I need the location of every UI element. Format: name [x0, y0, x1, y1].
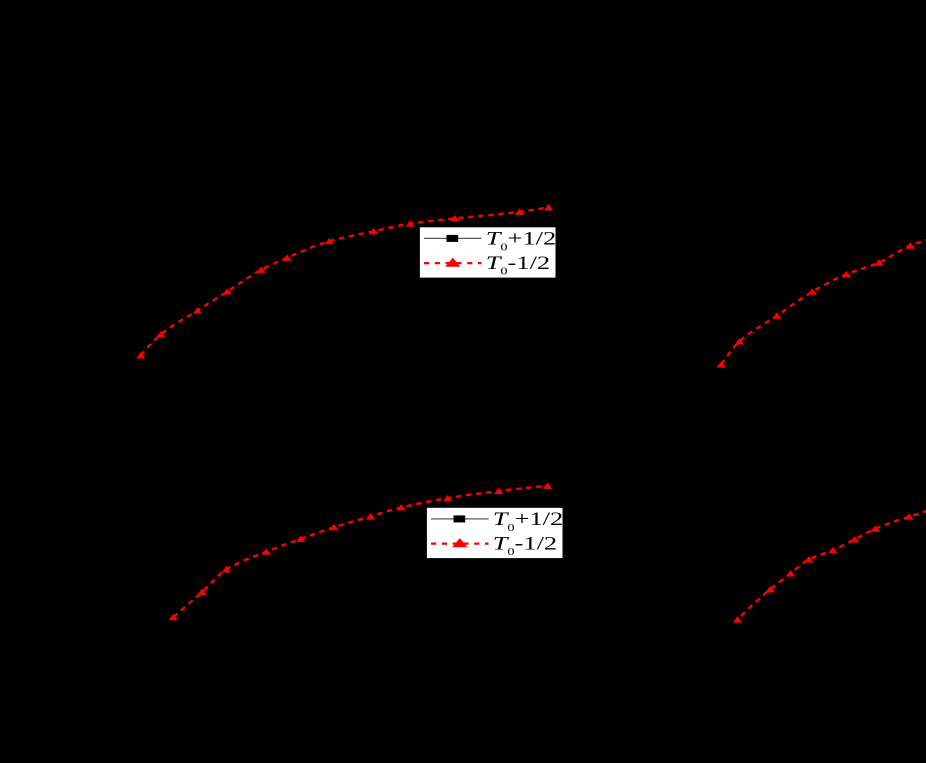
top legend entry 2 label T0-1/2 — [486, 253, 550, 277]
TR triangle marker 4 — [808, 288, 817, 295]
TL triangle marker 3 — [193, 307, 202, 314]
BR triangle marker 2 — [765, 586, 774, 593]
TL triangle marker 8 — [369, 228, 378, 235]
top legend entry 1 black square marker — [447, 235, 459, 242]
TR triangle marker 3 — [772, 312, 781, 319]
BL triangle marker 6 — [329, 524, 338, 531]
top-left panel red dashed curve T0-1/2 — [141, 208, 546, 356]
top legend entry 2 red dashed line sample — [424, 262, 482, 264]
TL triangle marker 11 — [515, 208, 524, 215]
bottom-right panel red dashed curve T0-1/2 — [738, 507, 926, 620]
bottom legend entry 1 black square marker — [454, 515, 466, 522]
BR triangle marker 3 — [786, 570, 795, 577]
TL triangle marker 9 — [406, 220, 415, 227]
BR triangle marker 1 — [733, 616, 742, 623]
top legend box — [420, 227, 556, 277]
bottom legend entry 1 label T0+1/2 — [493, 509, 564, 533]
top legend entry 1 label T0+1/2 — [486, 228, 557, 252]
BR triangle marker 6 — [850, 536, 859, 543]
BR triangle marker 5 — [828, 547, 837, 554]
bottom legend entry 2 label T0-1/2 — [493, 533, 557, 557]
TR triangle marker 2 — [735, 338, 744, 345]
TR triangle marker 1 — [717, 361, 726, 368]
BL triangle marker 5 — [296, 535, 305, 542]
bottom legend entry 2 red triangle marker — [452, 538, 467, 547]
TL triangle marker 4 — [223, 288, 232, 295]
TL triangle marker 12 — [544, 204, 553, 211]
TL triangle marker 2 — [156, 331, 165, 338]
bottom legend entry 2 red dashed line sample — [431, 542, 489, 544]
BL triangle marker 8 — [397, 504, 406, 511]
bottom-left panel red dashed curve T0-1/2 — [173, 486, 545, 617]
BL triangle marker 7 — [366, 513, 375, 520]
BL triangle marker 2 — [197, 589, 206, 596]
BR triangle marker 4 — [804, 556, 813, 563]
BL triangle marker 11 — [543, 482, 552, 489]
top legend entry 1 line sample — [424, 237, 482, 239]
BL triangle marker 4 — [262, 548, 271, 555]
BL triangle marker 10 — [494, 488, 503, 495]
bottom legend box — [427, 508, 563, 558]
BR triangle marker 7 — [871, 525, 880, 532]
TR triangle marker 7 — [906, 242, 915, 249]
BL triangle marker 1 — [169, 614, 178, 621]
top legend entry 2 red triangle marker — [445, 258, 460, 267]
TL triangle marker 1 — [136, 352, 145, 359]
TR triangle marker 5 — [842, 271, 851, 278]
BL triangle marker 3 — [222, 566, 231, 573]
TL triangle marker 6 — [282, 254, 291, 261]
TL triangle marker 10 — [450, 215, 459, 222]
TL triangle marker 5 — [257, 266, 266, 273]
BL triangle marker 9 — [443, 495, 452, 502]
BR triangle marker 8 — [904, 513, 913, 520]
TR triangle marker 6 — [874, 259, 883, 266]
bottom legend entry 1 line sample — [431, 518, 489, 520]
top-right panel red dashed curve T0-1/2 — [721, 237, 926, 365]
TL triangle marker 7 — [325, 238, 334, 245]
